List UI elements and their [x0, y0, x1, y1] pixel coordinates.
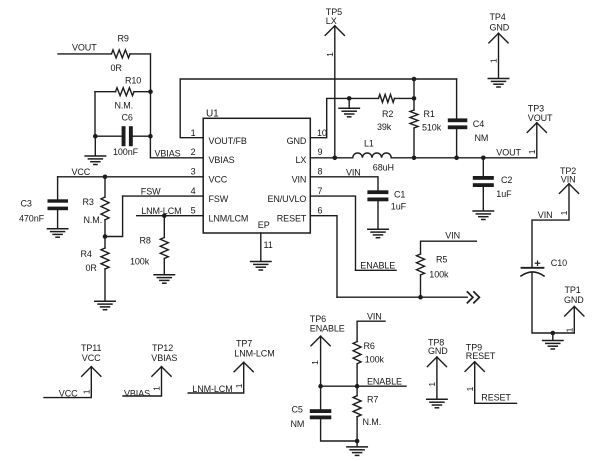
svg-text:1: 1	[427, 382, 437, 387]
resistor R4	[101, 248, 109, 269]
wire R10 right lead	[134, 91, 151, 93]
test point TP9 arrow	[465, 362, 484, 372]
svg-text:TP4: TP4	[490, 12, 506, 22]
wire pin 11 EP lead	[260, 233, 262, 261]
test point TP1 arrow	[565, 306, 584, 316]
svg-text:ENABLE: ENABLE	[310, 323, 345, 333]
svg-text:1: 1	[325, 52, 335, 57]
node R3/R4/FSW junction	[103, 234, 108, 239]
capacitor C10 curved plate	[521, 272, 544, 276]
svg-text:7: 7	[318, 186, 323, 196]
wire VCC rail to pin 3	[58, 176, 204, 178]
wire C2 top lead	[482, 158, 484, 177]
svg-text:1: 1	[465, 386, 475, 391]
node C6 right junction	[148, 134, 153, 139]
svg-text:R5: R5	[436, 254, 447, 264]
wire TP6 shaft	[320, 336, 322, 386]
svg-text:100k: 100k	[429, 270, 449, 280]
node ground tap on R2 rail	[347, 96, 352, 101]
wire R5 VIN stub	[421, 241, 477, 254]
wire R9 to corner down to R10 node	[130, 54, 151, 92]
wire TP12 shaft and VBIAS stub	[123, 367, 162, 396]
svg-text:100nF: 100nF	[113, 147, 139, 157]
svg-text:TP11: TP11	[81, 343, 102, 353]
resistor R9	[112, 50, 131, 58]
test point TP7 arrow	[234, 362, 253, 372]
ground below TP4	[488, 79, 508, 88]
svg-text:LX: LX	[326, 16, 337, 26]
svg-text:510k: 510k	[422, 123, 442, 133]
wire TP1 shaft	[573, 306, 575, 333]
svg-text:0R: 0R	[111, 63, 123, 73]
wire C3 top lead	[57, 177, 59, 199]
svg-text:C5: C5	[292, 404, 303, 414]
svg-text:11: 11	[264, 240, 273, 250]
offpage chevron 2	[474, 292, 480, 303]
node R9/R10 junction	[148, 89, 153, 94]
svg-text:VIN: VIN	[538, 210, 553, 220]
resistor R7	[353, 396, 361, 417]
node C6 left junction	[93, 134, 98, 139]
ground below C6	[85, 156, 105, 165]
svg-text:GND: GND	[287, 136, 307, 146]
wire R3 top lead	[104, 177, 106, 197]
node TP6/C5 on ENABLE	[318, 384, 323, 389]
wire C10 bottom lead to TP1	[532, 273, 574, 333]
wire FSW to pin 4	[123, 195, 204, 197]
resistor R5	[417, 254, 425, 275]
svg-text:VOUT/FB: VOUT/FB	[209, 136, 247, 146]
svg-text:R10: R10	[125, 76, 141, 86]
svg-text:8: 8	[318, 167, 323, 177]
resistor R1	[410, 110, 418, 128]
svg-text:100k: 100k	[365, 354, 385, 364]
svg-text:VCC: VCC	[72, 167, 91, 177]
svg-text:VBIAS: VBIAS	[124, 388, 150, 398]
wire RESET bus to chevron	[337, 296, 467, 298]
svg-text:C6: C6	[122, 113, 133, 123]
svg-text:RESET: RESET	[466, 351, 496, 361]
wire LNM-LCM to pin 5	[137, 215, 204, 217]
node top rail / R1 branch	[412, 77, 417, 82]
wire pin 8 VIN to C1	[310, 177, 378, 190]
svg-text:1: 1	[489, 58, 499, 63]
ground below R2 rail	[339, 108, 359, 117]
svg-text:LNM-LCM: LNM-LCM	[141, 206, 181, 216]
wire TP5 shaft down to LX net	[334, 26, 336, 158]
resistor R6	[353, 342, 361, 364]
svg-text:GND: GND	[564, 295, 584, 305]
ground below EP	[251, 262, 271, 271]
svg-text:1: 1	[191, 128, 196, 138]
inductor L1	[353, 153, 391, 158]
svg-text:R7: R7	[367, 394, 378, 404]
capacitor C2	[473, 176, 494, 180]
capacitor C4	[448, 118, 468, 122]
svg-text:3: 3	[191, 167, 196, 177]
capacitor C10 plus sign	[535, 262, 539, 264]
wire LX pin 9 to L1	[310, 157, 353, 159]
node R1 bottom	[412, 156, 417, 161]
svg-text:FSW: FSW	[209, 194, 229, 204]
svg-text:VIN: VIN	[561, 174, 576, 184]
svg-text:R3: R3	[83, 197, 94, 207]
ground below R7/C5	[347, 447, 367, 456]
resistor R10	[116, 88, 135, 96]
svg-text:39k: 39k	[377, 122, 392, 132]
svg-text:R4: R4	[81, 249, 92, 259]
svg-text:TP1: TP1	[565, 285, 581, 295]
svg-text:FSW: FSW	[141, 186, 161, 196]
svg-text:1: 1	[82, 389, 92, 394]
ground below C2	[473, 211, 493, 220]
wire L1 to VOUT corner	[391, 157, 537, 159]
capacitor C6	[122, 126, 126, 146]
node C4 bottom	[454, 156, 459, 161]
wire R2 to R1 node	[395, 97, 415, 99]
svg-text:C2: C2	[501, 175, 512, 185]
svg-text:VIN: VIN	[292, 175, 307, 185]
svg-text:R1: R1	[424, 109, 435, 119]
resistor R8	[160, 238, 168, 259]
svg-text:LNM-LCM: LNM-LCM	[192, 384, 232, 394]
ground below C3	[47, 229, 67, 238]
test point TP6 arrow	[311, 336, 330, 346]
svg-text:1: 1	[527, 149, 537, 154]
wire ENABLE bottom net	[321, 385, 406, 387]
svg-text:EN/UVLO: EN/UVLO	[267, 194, 306, 204]
node TP1 ground junction	[551, 331, 556, 336]
svg-text:NM: NM	[475, 133, 489, 143]
wire C5 bottom lead and bottom rail	[321, 419, 358, 441]
svg-text:GND: GND	[490, 23, 510, 33]
svg-text:9: 9	[318, 147, 323, 157]
svg-text:RESET: RESET	[481, 392, 511, 402]
capacitor C1	[367, 190, 388, 194]
svg-text:1: 1	[152, 386, 162, 391]
svg-text:VBIAS: VBIAS	[209, 155, 235, 165]
wire C5 top lead	[320, 386, 322, 409]
svg-text:NM: NM	[291, 419, 305, 429]
svg-text:R2: R2	[382, 109, 393, 119]
wire R6 VIN stub	[357, 321, 385, 341]
node TP5 on LX	[333, 156, 338, 161]
svg-text:U1: U1	[206, 109, 219, 120]
wire pin 6 RESET down to bus	[310, 216, 337, 298]
node R1/R2 junction	[412, 96, 417, 101]
wire C4 bottom lead	[456, 129, 458, 158]
svg-text:VIN: VIN	[367, 311, 382, 321]
svg-text:L1: L1	[364, 138, 374, 148]
test point TP3 arrow	[527, 123, 546, 133]
node LNM-LCM / R8 junction	[162, 213, 167, 218]
svg-text:R9: R9	[118, 34, 129, 44]
svg-text:LX: LX	[295, 155, 306, 165]
test point TP2 arrow	[559, 184, 578, 194]
resistor R2	[379, 94, 395, 102]
wire TP2 shaft and VIN jog	[532, 184, 569, 267]
svg-text:VBIAS: VBIAS	[151, 353, 177, 363]
wire R8 bottom lead	[163, 259, 165, 275]
wire R1 top lead	[413, 79, 415, 110]
svg-text:LNM-LCM: LNM-LCM	[234, 348, 274, 358]
svg-text:10: 10	[317, 128, 327, 138]
capacitor C10 top plate	[522, 267, 544, 269]
wire pin 1 up to top rail	[180, 79, 456, 138]
svg-text:C3: C3	[21, 198, 32, 208]
wire right branch down from R10 node	[150, 92, 152, 137]
wire VOUT net to R9	[58, 53, 112, 55]
svg-text:100k: 100k	[130, 257, 150, 267]
wire C3 bottom lead	[57, 210, 59, 228]
ground below TP8	[427, 399, 447, 408]
svg-text:ENABLE: ENABLE	[367, 376, 402, 386]
test point TP12 arrow	[152, 367, 171, 377]
svg-text:TP7: TP7	[236, 338, 252, 348]
svg-text:N.M.: N.M.	[115, 101, 134, 111]
test point TP5 arrow	[325, 26, 344, 36]
wire R7 bottom lead	[356, 417, 358, 441]
svg-text:TP12: TP12	[152, 343, 173, 353]
wire R10 left lead	[95, 91, 116, 93]
wire TP4 shaft	[498, 33, 500, 78]
node R7/C5 bottom junction	[355, 439, 360, 444]
ground below C1	[368, 229, 388, 238]
svg-text:GND: GND	[428, 346, 448, 356]
node R5 bottom on bus	[418, 295, 423, 300]
wire R4 bottom lead	[104, 269, 106, 301]
svg-text:VOUT: VOUT	[72, 43, 97, 53]
svg-text:VBIAS: VBIAS	[155, 148, 181, 158]
ground below R4	[95, 301, 115, 310]
test point TP11 arrow	[82, 367, 101, 377]
node R6/R7 on ENABLE	[355, 384, 360, 389]
wire ground lead below TP1 wire	[552, 333, 554, 340]
test point TP8 arrow	[427, 357, 446, 367]
svg-text:R8: R8	[140, 235, 151, 245]
svg-text:EP: EP	[258, 220, 270, 230]
svg-text:VCC: VCC	[59, 388, 78, 398]
wire C1 bottom lead	[377, 201, 379, 228]
svg-text:RESET: RESET	[277, 213, 307, 223]
wire C6 right lead	[133, 135, 151, 137]
svg-text:VIN: VIN	[346, 167, 361, 177]
svg-text:0R: 0R	[86, 263, 98, 273]
wire ground lead below rail	[348, 98, 350, 107]
ground below R8	[154, 275, 174, 284]
svg-text:VIN: VIN	[445, 230, 460, 240]
wire TP7 shaft and LNM-LCM stub	[188, 362, 244, 393]
wire pin 10 to R2 rail	[310, 98, 378, 137]
node C2 top	[481, 156, 486, 161]
svg-text:68uH: 68uH	[373, 163, 394, 173]
wire R4 top lead	[104, 237, 106, 249]
wire TP9 shaft and RESET stub	[475, 362, 517, 404]
svg-text:1uF: 1uF	[496, 189, 512, 199]
wire R5 bottom lead	[420, 275, 422, 297]
svg-text:1: 1	[234, 383, 244, 388]
wire R8 top lead	[163, 216, 165, 238]
wire R1 bottom lead	[413, 128, 415, 158]
svg-text:2: 2	[191, 147, 196, 157]
svg-text:470nF: 470nF	[19, 214, 45, 224]
svg-text:1uF: 1uF	[391, 201, 407, 211]
capacitor C5	[310, 409, 332, 413]
wire junction right and up to FSW	[105, 196, 123, 236]
svg-text:1: 1	[565, 327, 575, 332]
wire C2 bottom lead	[482, 187, 484, 210]
svg-text:VOUT: VOUT	[496, 147, 521, 157]
node VCC / R3 junction	[103, 175, 108, 180]
svg-text:4: 4	[191, 186, 196, 196]
svg-text:1: 1	[559, 210, 569, 215]
wire VOUT corner up to TP3	[536, 123, 538, 158]
svg-text:VCC: VCC	[82, 353, 101, 363]
op IC U1 box	[203, 118, 310, 233]
wire R7 top lead	[356, 386, 358, 396]
svg-text:LNM/LCM: LNM/LCM	[209, 213, 249, 223]
svg-text:VCC: VCC	[209, 175, 228, 185]
wire pin 7 EN/UVLO down to ENABLE stub	[310, 196, 355, 270]
svg-text:ENABLE: ENABLE	[360, 260, 395, 270]
test point TP4 arrow	[489, 33, 508, 43]
svg-text:VOUT: VOUT	[528, 113, 553, 123]
capacitor C3	[48, 199, 69, 202]
svg-text:TP3: TP3	[528, 104, 544, 114]
svg-text:R6: R6	[364, 341, 375, 351]
wire ENABLE stub	[356, 269, 397, 271]
wire R6 bottom lead	[356, 364, 358, 387]
svg-text:C1: C1	[394, 189, 405, 199]
wire VBIAS from C6 node to pin 2	[150, 136, 203, 158]
wire top rail corner down to C4	[456, 79, 458, 118]
svg-text:5: 5	[191, 205, 196, 215]
wire ground lead below bottom rail	[356, 441, 358, 446]
svg-text:N.M.: N.M.	[84, 215, 103, 225]
svg-text:1: 1	[310, 360, 320, 365]
ground below TP1	[543, 341, 563, 350]
svg-text:6: 6	[318, 205, 323, 215]
wire C6 left to ground	[94, 136, 96, 155]
offpage chevron 1	[467, 292, 473, 303]
svg-text:C4: C4	[473, 119, 484, 129]
resistor R3	[101, 197, 109, 220]
wire TP8 shaft	[436, 357, 438, 399]
svg-text:C10: C10	[551, 258, 567, 268]
svg-text:TP6: TP6	[310, 314, 326, 324]
wire left branch down to C6	[95, 92, 122, 137]
wire R3 bottom lead	[104, 220, 106, 237]
svg-text:N.M.: N.M.	[363, 417, 382, 427]
wire TP11 shaft and VCC stub	[44, 367, 91, 398]
